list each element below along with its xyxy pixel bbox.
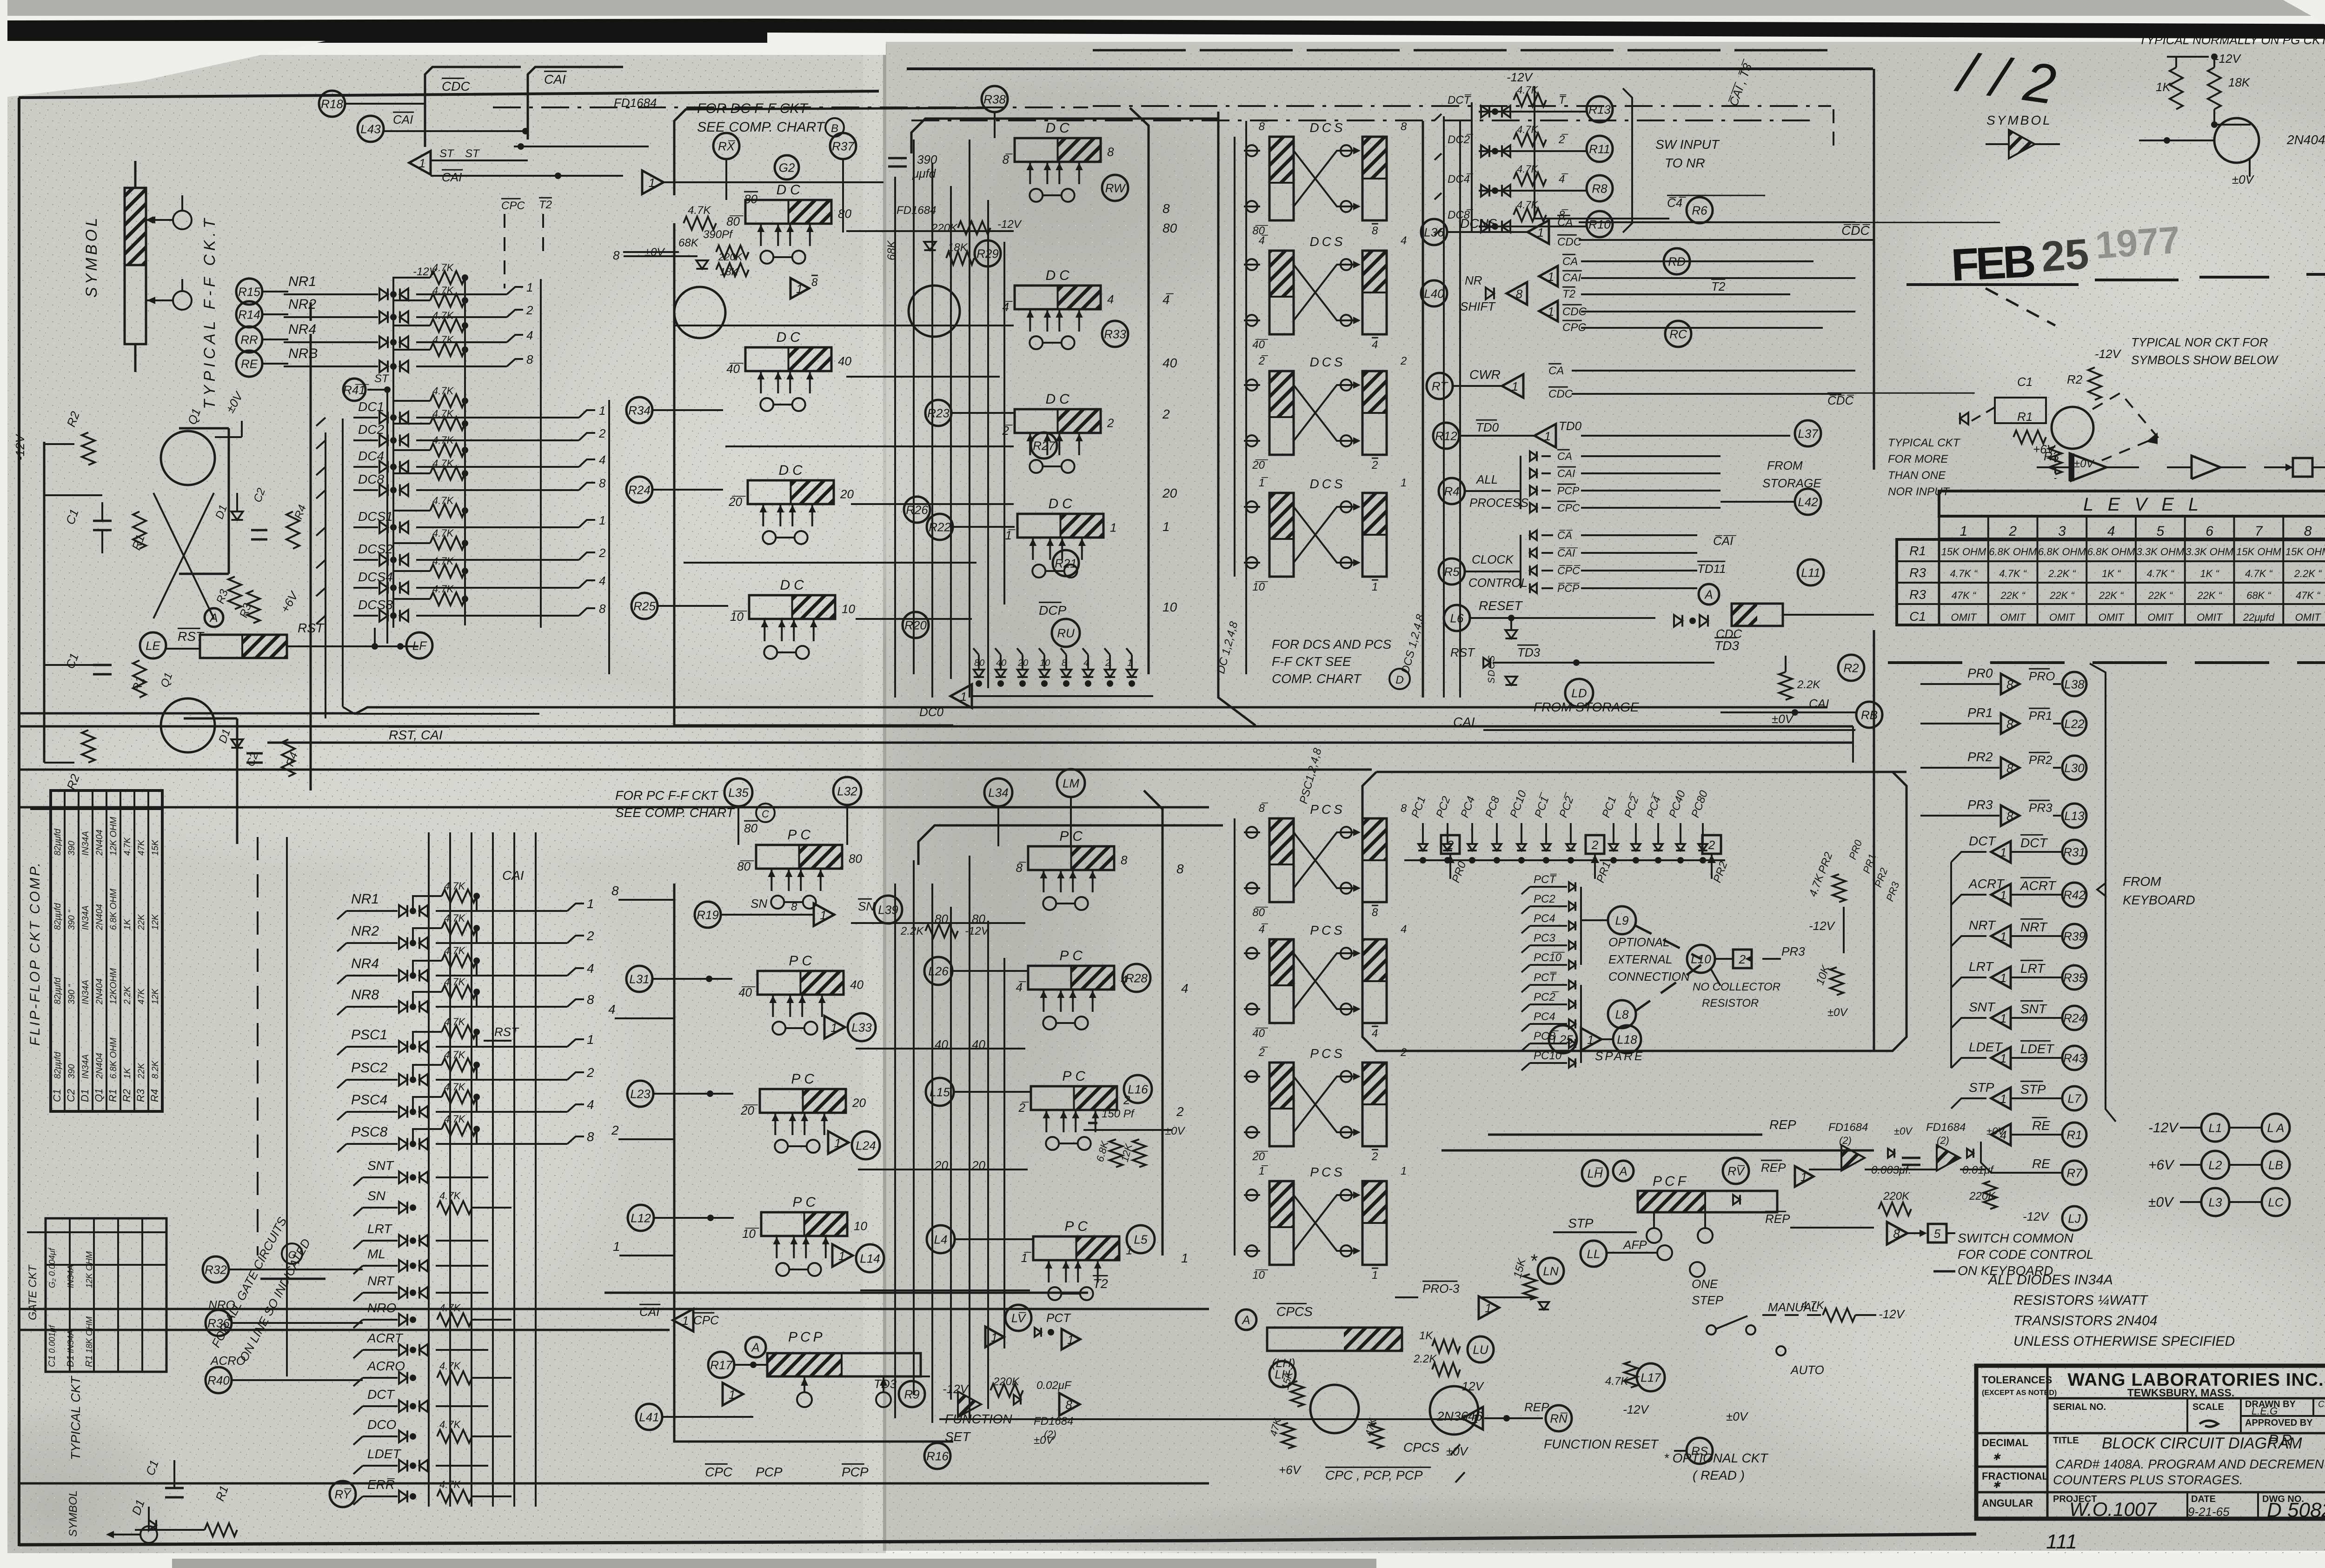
svg-text:A: A [1618,1164,1627,1178]
svg-text:4.7K “: 4.7K “ [2245,568,2273,579]
svg-text:CDC: CDC [1557,236,1582,248]
svg-text:25: 25 [2039,230,2090,281]
svg-text:S D C S: S D C S [1487,655,1497,684]
svg-text:SYMBOLS SHOW BELOW: SYMBOLS SHOW BELOW [2131,353,2278,367]
svg-text:PCS: PCS [1310,802,1345,817]
svg-text:A: A [1704,587,1713,601]
svg-text:4.7K: 4.7K [444,912,466,924]
svg-text:FOR DC F-F CKT: FOR DC F-F CKT [697,101,809,116]
svg-text:-12V: -12V [997,218,1022,231]
svg-text:CPC: CPC [1557,502,1580,514]
svg-text:18K OHM: 18K OHM [85,1316,94,1353]
svg-text:47K: 47K [137,988,146,1004]
svg-text:FLIP-FLOP CKT COMP.: FLIP-FLOP CKT COMP. [27,861,43,1046]
svg-text:15K: 15K [151,839,160,856]
svg-text:22K “: 22K “ [2049,590,2075,601]
svg-text:1977: 1977 [2094,219,2181,267]
svg-text:220K: 220K [931,222,958,234]
svg-text:80: 80 [838,206,851,220]
svg-text:DCS4: DCS4 [358,570,393,584]
svg-text:1: 1 [2000,1051,2006,1065]
svg-text:1: 1 [1537,226,1544,239]
svg-text:1: 1 [1162,519,1170,534]
svg-text:80: 80 [744,821,757,835]
svg-text:40: 40 [1162,356,1177,370]
svg-text:R1: R1 [107,1089,119,1102]
svg-text:AFP: AFP [1622,1238,1647,1252]
svg-text:40: 40 [838,354,851,368]
svg-text:40: 40 [850,977,864,991]
svg-text:2: 2 [1371,1150,1378,1163]
svg-text:4.7K: 4.7K [432,310,454,321]
svg-text:1: 1 [796,282,803,296]
svg-text:STP: STP [1969,1080,1994,1095]
svg-text:2: 2 [611,1123,619,1137]
svg-text:2: 2 [1591,838,1599,852]
svg-text:4.7K: 4.7K [444,1113,466,1125]
svg-text:NRT: NRT [2020,920,2048,934]
svg-text:LB: LB [2268,1158,2283,1172]
svg-text:FROM: FROM [1767,458,1803,472]
svg-text:FROM: FROM [2123,874,2161,889]
svg-text:7: 7 [2255,524,2263,539]
svg-text:NR: NR [1465,273,1482,287]
svg-text:L11: L11 [1801,565,1820,579]
svg-text:22K “: 22K “ [2148,590,2173,601]
svg-text:4.7K: 4.7K [432,408,454,419]
svg-text:REP: REP [1765,1212,1790,1226]
svg-text:SYMBOL: SYMBOL [67,1490,80,1537]
svg-text:DCS: DCS [1309,234,1345,249]
svg-text:22K: 22K [137,914,146,930]
svg-text:UNLESS OTHERWISE SPECIFIED: UNLESS OTHERWISE SPECIFIED [2013,1334,2235,1349]
svg-text:PCT̅: PCT̅ [1534,971,1557,984]
svg-text:PC: PC [1064,1219,1091,1234]
svg-text:1: 1 [599,513,605,527]
svg-text:R5: R5 [1444,565,1460,578]
svg-text:R1: R1 [84,1355,94,1367]
svg-text:±0V: ±0V [1165,1125,1186,1137]
svg-text:PR3: PR3 [1967,797,1993,812]
svg-text:ACRT: ACRT [366,1331,404,1345]
svg-text:3.3K OHM: 3.3K OHM [2137,546,2185,558]
svg-text:47K: 47K [137,839,146,856]
svg-text:RT: RT [1432,379,1448,393]
svg-text:4.7K: 4.7K [1517,84,1539,96]
svg-text:10: 10 [1162,600,1177,614]
svg-text:5: 5 [1934,1227,1941,1241]
svg-text:ACRT: ACRT [1968,877,2005,891]
svg-text:4: 4 [599,574,605,588]
svg-text:FOR DCS AND PCS: FOR DCS AND PCS [1272,637,1392,651]
svg-text:2: 2 [1162,407,1170,421]
svg-text:LM: LM [1063,776,1079,790]
svg-text:A: A [751,1340,759,1354]
svg-text:STP: STP [2020,1082,2046,1096]
svg-text:PCS: PCS [1310,1046,1345,1061]
svg-text:R13: R13 [1588,102,1611,116]
svg-text:1: 1 [2000,888,2006,902]
svg-text:DCT̅: DCT̅ [1448,94,1472,106]
svg-text:4.7K: 4.7K [444,945,466,957]
svg-text:PC: PC [1062,1069,1089,1084]
svg-text:CAI: CAI [639,1305,659,1319]
svg-text:DC: DC [780,578,808,593]
svg-text:PSC8: PSC8 [351,1124,388,1140]
svg-text:L.E.G: L.E.G [2252,1405,2278,1417]
svg-text:OMIT: OMIT [2049,611,2076,623]
svg-text:IN34A: IN34A [81,905,91,930]
svg-text:R2: R2 [2067,372,2083,386]
svg-text:STP: STP [1568,1216,1594,1230]
svg-text:1: 1 [1587,1033,1594,1047]
svg-text:TOLERANCES: TOLERANCES [1982,1374,2052,1386]
svg-text:-12V: -12V [1507,70,1534,84]
svg-text:R8: R8 [1592,181,1608,195]
svg-text:8: 8 [2006,717,2013,731]
svg-text:12K: 12K [151,988,160,1004]
svg-text:390 “: 390 “ [67,909,77,930]
svg-text:D1: D1 [66,1355,76,1367]
svg-text:ALL: ALL [1475,472,1498,486]
svg-text:8: 8 [526,352,533,366]
svg-text:4: 4 [1401,923,1407,936]
svg-text:CHECKED BY: CHECKED BY [2318,1400,2325,1409]
svg-text:LD: LD [1571,686,1587,700]
svg-text:PC4: PC4 [1534,912,1555,925]
svg-text:R24: R24 [628,483,651,497]
svg-text:TITLE: TITLE [2053,1435,2079,1446]
svg-text:DCO: DCO [367,1417,396,1432]
svg-text:PC1̅0̅: PC1̅0̅ [1534,951,1565,964]
svg-text:THAN ONE: THAN ONE [1888,469,1946,482]
svg-text:SN: SN [751,897,767,910]
svg-text:CA: CA [1557,216,1573,229]
svg-text:±0V: ±0V [1827,1006,1848,1019]
svg-text:DCS: DCS [1309,120,1345,135]
svg-text:8: 8 [811,276,818,289]
svg-text:1: 1 [834,1136,841,1150]
svg-text:DECIMAL: DECIMAL [1982,1437,2028,1448]
svg-text:RS: RS [1691,1444,1708,1458]
svg-text:COMP. CHART: COMP. CHART [1272,671,1362,686]
svg-text:LRT: LRT [2020,961,2046,976]
svg-text:C2: C2 [65,1089,77,1102]
svg-text:1: 1 [2000,845,2006,859]
svg-text:DCP: DCP [1039,603,1066,618]
svg-text:L E V E L: L E V E L [2083,494,2203,515]
svg-text:CAI: CAI [544,72,566,86]
svg-text:DC0: DC0 [919,705,944,719]
svg-text:DC: DC [777,330,804,345]
svg-text:4.7K: 4.7K [1517,199,1539,211]
svg-text:L43: L43 [360,122,381,136]
svg-text:R1: R1 [2017,410,2033,424]
svg-text:Q1: Q1 [93,1089,105,1102]
svg-text:2.2K: 2.2K [900,925,924,937]
svg-text:1K “: 1K “ [2102,568,2121,579]
svg-text:1: 1 [419,156,425,170]
svg-text:R20: R20 [904,618,927,632]
svg-text:DC2̅: DC2̅ [1448,133,1474,146]
svg-text:C1: C1 [2017,375,2033,389]
svg-text:L16: L16 [1128,1082,1148,1096]
svg-text:L37: L37 [1798,426,1819,440]
svg-text:LDET: LDET [2020,1042,2054,1056]
svg-text:22μμfd: 22μμfd [2243,611,2275,623]
svg-text:LRT: LRT [1969,959,1994,974]
svg-text:R17: R17 [710,1358,733,1372]
svg-text:L2: L2 [2209,1158,2222,1172]
svg-text:CA: CA [1557,450,1572,462]
svg-text:6: 6 [2205,524,2213,539]
svg-text:RESISTORS ¼WATT: RESISTORS ¼WATT [2013,1293,2149,1308]
svg-text:R23: R23 [927,406,950,420]
svg-text:(EXCEPT AS NOTED): (EXCEPT AS NOTED) [1982,1389,2057,1397]
svg-text:CWR: CWR [1469,367,1501,382]
svg-text:RN̅: RN̅ [1550,1411,1568,1425]
svg-text:TD0: TD0 [1476,420,1499,434]
svg-text:PC: PC [791,1071,818,1087]
svg-text:OMIT: OMIT [2000,611,2026,623]
svg-text:C: C [762,808,769,820]
svg-text:L24: L24 [856,1138,876,1152]
svg-text:C1: C1 [51,1089,63,1102]
svg-text:22K “: 22K “ [2099,590,2124,601]
svg-text:8: 8 [1176,862,1184,876]
svg-text:✱: ✱ [1993,1480,2001,1490]
svg-text:FUNCTION RESET: FUNCTION RESET [1544,1437,1659,1451]
svg-text:R39: R39 [2063,929,2086,943]
svg-text:±0V: ±0V [1034,1434,1055,1447]
svg-text:1: 1 [1472,1412,1478,1426]
svg-text:20: 20 [1162,486,1177,500]
svg-text:L18: L18 [1617,1032,1637,1046]
svg-text:4.7K: 4.7K [688,204,711,217]
svg-text:CPC: CPC [693,1313,719,1327]
svg-text:6.8K OHM: 6.8K OHM [109,889,119,930]
svg-text:RV̅: RV̅ [1727,1164,1745,1178]
svg-text:4.7K: 4.7K [432,583,454,595]
svg-text:NR4: NR4 [351,956,379,971]
svg-text:R16: R16 [926,1449,949,1463]
svg-text:DC: DC [1046,268,1073,283]
svg-text:ALL DIODES IN34A: ALL DIODES IN34A [1987,1272,2113,1288]
svg-text:L5: L5 [1134,1232,1148,1246]
svg-text:4.7K: 4.7K [1801,1299,1824,1312]
svg-text:L23: L23 [630,1087,651,1101]
svg-text:L41: L41 [639,1410,659,1424]
svg-text:SNT: SNT [2020,1002,2047,1016]
svg-text:DC: DC [1049,496,1076,512]
svg-text:8: 8 [1893,1227,1900,1241]
svg-text:4: 4 [1107,292,1114,306]
svg-text:L17: L17 [1641,1370,1661,1384]
svg-text:1: 1 [2000,930,2006,943]
svg-text:NRT: NRT [367,1274,395,1288]
svg-text:111: 111 [2046,1530,2077,1553]
svg-text:1: 1 [1401,1165,1407,1177]
svg-text:-12V: -12V [413,266,438,278]
svg-text:R9: R9 [904,1387,919,1401]
svg-text:20: 20 [840,487,854,501]
svg-text:DC4̅: DC4̅ [1448,173,1474,186]
svg-text:EXTERNAL: EXTERNAL [1608,952,1672,966]
svg-text:RE: RE [241,357,258,371]
svg-text:ST: ST [439,147,455,160]
svg-text:1K: 1K [123,1067,133,1079]
svg-text:L35: L35 [728,785,749,799]
svg-text:22K: 22K [137,1063,146,1079]
svg-text:PC: PC [787,827,814,843]
svg-text:SNT: SNT [367,1158,394,1173]
svg-text:2: 2 [598,546,606,560]
svg-text:R28: R28 [1125,971,1148,985]
svg-text:1: 1 [587,1032,594,1047]
svg-text:LF: LF [412,638,427,652]
svg-text:CAI: CAI [1453,715,1475,729]
svg-text:8: 8 [791,901,797,913]
svg-text:IN34A: IN34A [81,980,91,1004]
svg-text:PC4: PC4 [1534,1010,1555,1023]
svg-text:TYPICAL F-F CK.T: TYPICAL F-F CK.T [201,215,219,409]
svg-text:-12V: -12V [2215,52,2242,66]
svg-text:8: 8 [1401,120,1407,133]
svg-text:STEP: STEP [1692,1293,1724,1307]
svg-text:20: 20 [852,1096,866,1110]
svg-text:TD11: TD11 [1697,562,1726,576]
svg-text:SET: SET [945,1429,971,1444]
svg-text:4.7K: 4.7K [444,880,466,892]
svg-text:2: 2 [598,426,606,440]
svg-text:220K: 220K [1883,1190,1910,1203]
svg-text:R3: R3 [1909,565,1926,580]
svg-text:CAI: CAI [1809,697,1829,711]
svg-text:CAI: CAI [1557,467,1575,479]
svg-text:R2: R2 [121,1089,133,1102]
svg-text:REP: REP [1761,1161,1786,1175]
svg-text:R33: R33 [1104,327,1126,341]
svg-text:2N404: 2N404 [2286,133,2325,147]
svg-text:TD3: TD3 [1517,645,1541,659]
svg-text:D 5082-8: D 5082-8 [2267,1499,2325,1521]
svg-text:1: 1 [2000,971,2006,985]
svg-text:4.7K: 4.7K [432,555,454,567]
svg-text:CLOCK: CLOCK [1472,552,1514,566]
svg-text:1: 1 [1485,1301,1491,1315]
svg-text:1: 1 [1372,1269,1378,1282]
svg-text:PCS: PCS [1310,1165,1345,1179]
svg-text:NO COLLECTOR: NO COLLECTOR [1693,981,1780,993]
svg-text:8: 8 [1121,853,1128,867]
svg-text:-12V: -12V [1809,919,1836,933]
svg-text:±0V: ±0V [1726,1409,1749,1423]
svg-text:P̅C̅P̅: P̅C̅P̅ [1557,582,1580,594]
svg-text:LDET: LDET [1969,1040,2003,1054]
svg-text:FD1684: FD1684 [1034,1415,1073,1428]
svg-text:SPARE: SPARE [1595,1049,1644,1063]
svg-text:+6V: +6V [2033,442,2056,456]
svg-text:(2): (2) [1937,1135,1949,1146]
svg-text:DCNS: DCNS [1460,216,1497,231]
svg-text:C̅D̅C̅: C̅D̅C̅ [1841,223,1871,238]
svg-text:TRANSISTORS 2N404: TRANSISTORS 2N404 [2013,1313,2158,1329]
svg-text:ACRT: ACRT [2019,878,2057,893]
svg-text:REP: REP [1769,1117,1796,1132]
svg-text:R21: R21 [1055,556,1077,570]
svg-text:LJ: LJ [2068,1211,2081,1225]
svg-text:150 Pf: 150 Pf [1102,1108,1135,1120]
svg-text:4.7K: 4.7K [444,1081,466,1093]
svg-text:IN34A: IN34A [66,1265,75,1288]
svg-text:6.8K OHM: 6.8K OHM [109,1037,119,1079]
svg-text:2N404: 2N404 [95,904,105,930]
svg-text:6.8K OHM: 6.8K OHM [2038,546,2086,558]
svg-text:FD1684: FD1684 [1926,1121,1966,1134]
svg-text:NR8: NR8 [351,987,379,1003]
svg-text:±0V: ±0V [1986,1125,2006,1137]
svg-text:RE: RE [2032,1118,2050,1133]
svg-text:RX̅: RX̅ [718,139,736,153]
svg-text:15K OHM: 15K OHM [1941,546,1986,558]
svg-text:L25: L25 [1553,1032,1573,1046]
svg-text:390: 390 [67,1064,77,1079]
svg-text:8: 8 [2006,678,2013,691]
svg-text:10: 10 [854,1219,867,1233]
svg-text:390: 390 [917,153,937,166]
svg-text:4.7K: 4.7K [1517,124,1539,135]
svg-text:3.3K OHM: 3.3K OHM [2185,546,2233,558]
svg-text:PCT̅: PCT̅ [1534,873,1557,886]
svg-text:CAI: CAI [442,170,462,184]
svg-text:L38: L38 [2064,677,2085,691]
svg-text:PC: PC [1059,829,1086,844]
svg-text:68K “: 68K “ [2246,590,2272,601]
svg-text:PR3: PR3 [2029,801,2053,815]
svg-text:R1: R1 [1909,544,1926,558]
svg-text:1: 1 [1401,477,1407,489]
svg-text:82μμfd: 82μμfd [53,903,63,930]
svg-text:C1: C1 [1909,609,1926,624]
svg-text:1: 1 [991,1330,997,1344]
svg-text:1: 1 [1548,305,1554,319]
svg-text:DCT: DCT [2020,836,2048,850]
svg-text:-12V: -12V [2148,1120,2179,1136]
svg-text:2.2K “: 2.2K “ [2048,568,2076,579]
svg-text:PR1: PR1 [2029,709,2053,723]
svg-text:CA: CA [1562,255,1578,268]
svg-text:G₂ 0.004μf: G₂ 0.004μf [47,1247,57,1288]
svg-text:1: 1 [1067,1333,1074,1347]
svg-text:NR1: NR1 [351,891,379,907]
svg-text:2: 2 [586,1065,594,1080]
svg-text:OPTIONAL: OPTIONAL [1608,935,1669,949]
svg-text:R4: R4 [1444,484,1459,498]
svg-text:18K: 18K [2228,75,2251,89]
svg-text:±0V: ±0V [1894,1125,1913,1137]
svg-text:8: 8 [587,992,594,1007]
svg-text:PCP: PCP [1557,485,1580,497]
svg-text:LU: LU [1473,1342,1488,1356]
svg-text:2: 2 [526,303,533,317]
svg-text:TO NR: TO NR [1665,156,1705,170]
svg-text:L12: L12 [631,1211,651,1225]
svg-text:LE: LE [146,638,160,652]
svg-text:IN34A: IN34A [66,1330,75,1353]
svg-text:R31: R31 [2063,845,2086,859]
svg-text:R4̅1̅: R4̅1̅ [343,383,369,397]
svg-text:1: 1 [649,176,655,190]
